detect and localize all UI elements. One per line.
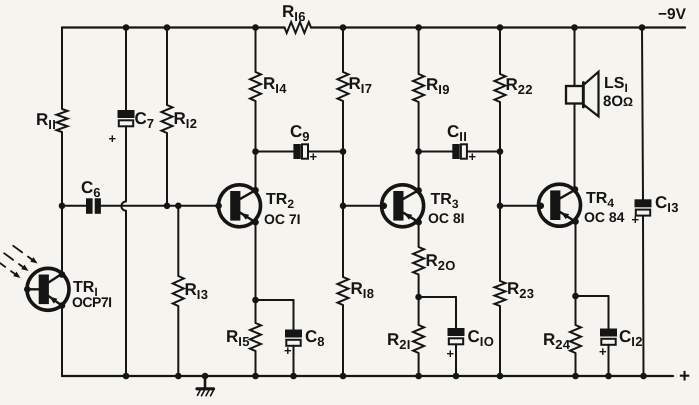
node top rail junction R14 column: [252, 24, 259, 31]
transistor TR4 OC84: [539, 184, 581, 226]
light arrow 2 into TR1: [4, 253, 13, 260]
svg-text:R2O: R2O: [426, 251, 456, 273]
node R15 top junction: [252, 297, 259, 304]
wire C7 column lower: [125, 211, 127, 376]
wire R20 to R21 junction: [418, 275, 420, 298]
wire R14 column upper: [255, 28, 257, 73]
svg-text:TR3: TR3: [431, 191, 459, 211]
node bottom rail junction R23: [497, 373, 504, 380]
resistor R12: [162, 105, 173, 133]
node TR3 base row junction: [340, 203, 347, 210]
light arrow 1 into TR1: [13, 246, 22, 253]
node bottom rail junction R13 column: [175, 373, 182, 380]
wire R13 column lower: [177, 306, 179, 376]
node R24 top junction: [572, 293, 579, 300]
svg-text:CII: CII: [447, 122, 467, 144]
transistor TR1 OCP71: [27, 268, 69, 310]
wire C7 column hop over base wire: [121, 202, 126, 211]
capacitor C12: [600, 329, 617, 337]
svg-text:R24: R24: [543, 330, 571, 352]
wire left column top: [61, 28, 63, 110]
wire TR4 emitter to R24 junction: [575, 222, 577, 296]
svg-text:C6: C6: [81, 178, 101, 200]
wire C12 column lower: [608, 345, 610, 376]
wire C13 column upper: [642, 28, 643, 200]
svg-text:RI7: RI7: [349, 74, 373, 96]
wire LS1 to TR4 collector: [574, 104, 576, 190]
wire R19 to C11 junction: [418, 102, 420, 152]
wire LS1 column upper: [574, 28, 576, 87]
svg-text:TR2: TR2: [266, 191, 294, 211]
wire R21 junction to C10: [419, 296, 456, 298]
transistor TR2 OC71: [219, 185, 261, 227]
svg-text:+: +: [679, 366, 690, 387]
resistor R18: [338, 277, 349, 305]
wire C11 junction to TR4 base row: [499, 152, 501, 206]
wire R15 junction to zigzag: [255, 300, 257, 323]
resistor R11: [57, 109, 68, 132]
wire R22 column upper: [499, 28, 501, 75]
node TR4 base edge dot: [538, 203, 545, 210]
svg-text:R22: R22: [506, 75, 533, 97]
node bottom rail junction R15: [252, 373, 259, 380]
node bottom rail junction R21: [415, 373, 422, 380]
wire C13 column lower: [642, 216, 645, 376]
node TR4 collector junction: [572, 186, 579, 193]
wire C11 right lead: [467, 151, 500, 153]
node top rail junction R22 column: [497, 24, 504, 31]
node C11 left junction: [415, 148, 422, 155]
wire R17 column upper: [342, 28, 344, 73]
node TR1 base dot: [24, 286, 31, 293]
wire C8 column upper: [293, 300, 295, 330]
capacitor C7: [118, 110, 135, 118]
svg-text:OCP7I: OCP7I: [72, 294, 112, 310]
resistor R21: [413, 325, 424, 353]
wire top supply rail left of R16: [62, 26, 285, 28]
svg-text:OC 7I: OC 7I: [264, 211, 301, 227]
svg-text:−9V: −9V: [658, 6, 687, 23]
wire C8 column lower: [293, 346, 295, 376]
node TR3 base edge dot: [381, 203, 388, 210]
node bottom rail junction C7 column: [123, 373, 130, 380]
node TR1 collector junction: [59, 271, 66, 278]
svg-text:OC 84: OC 84: [584, 209, 625, 225]
svg-text:RI4: RI4: [263, 74, 287, 96]
svg-text:C8: C8: [305, 327, 325, 349]
node R12 base wire junction: [164, 203, 171, 210]
svg-text:C7: C7: [135, 109, 155, 131]
wire C11 junction to TR3 collector: [418, 152, 420, 191]
svg-text:8OΩ: 8OΩ: [603, 93, 633, 110]
wire TR2 emitter to R15 junction: [255, 222, 257, 300]
wire C11 left lead: [419, 151, 453, 153]
node R13 top junction: [175, 203, 182, 210]
loudspeaker LS1: [566, 86, 583, 104]
transistor TR3 OC81: [382, 185, 424, 227]
resistor R17: [338, 72, 349, 101]
node top rail junction C13 column: [639, 24, 646, 31]
node R21 top junction: [415, 294, 422, 301]
node TR3 emitter junction: [415, 219, 422, 226]
svg-text:R23: R23: [507, 279, 534, 301]
wire left column bottom: [61, 306, 63, 377]
node TR2 collector junction: [252, 187, 259, 194]
wire top supply rail right of R16: [311, 26, 685, 28]
resistor R13: [173, 276, 184, 306]
svg-text:CIO: CIO: [468, 327, 495, 349]
node bottom rail junction C12: [605, 373, 612, 380]
wire R12 column lower: [166, 133, 168, 206]
svg-text:C9: C9: [290, 122, 310, 144]
wire C10 column upper: [455, 297, 457, 328]
wire C9 junction to TR2 collector: [255, 152, 257, 191]
svg-text:RI6: RI6: [282, 2, 306, 24]
wire C6 left segment: [62, 205, 86, 207]
capacitor C10: [448, 328, 465, 336]
wire C12 column upper: [608, 296, 610, 329]
node TR3 collector junction: [415, 187, 422, 194]
node top rail junction R19 column: [415, 24, 422, 31]
wire TR1 base stub: [27, 288, 38, 290]
node C9 left junction: [252, 148, 259, 155]
resistor R19: [413, 74, 424, 102]
node TR4 base row junction: [497, 203, 504, 210]
wire R23 column upper: [499, 206, 501, 281]
node top rail junction R12 column: [164, 24, 171, 31]
svg-text:+: +: [109, 131, 117, 146]
wire C6 to TR2 base: [101, 205, 219, 207]
wire R21 junction to zigzag: [418, 297, 420, 325]
wire TR3 emitter to R20: [418, 222, 420, 247]
capacitor C8: [285, 330, 302, 338]
wire R18 column lower: [342, 305, 344, 376]
wire R23 column lower: [499, 306, 501, 376]
capacitor C11: [452, 144, 459, 159]
wire C10 column lower: [455, 344, 457, 376]
ground: [204, 376, 207, 388]
node bottom rail junction R18: [340, 373, 347, 380]
wire TR4 base wire: [500, 205, 541, 207]
svg-text:RI9: RI9: [426, 75, 450, 97]
wire C9 left lead: [256, 151, 294, 153]
wire left column middle: [61, 132, 63, 275]
node TR2 emitter junction: [252, 219, 259, 226]
resistor R14: [250, 72, 261, 101]
node bottom rail junction C8: [290, 373, 297, 380]
svg-text:+: +: [284, 343, 292, 358]
svg-text:CI2: CI2: [619, 327, 643, 349]
wire bottom ground rail: [62, 375, 673, 377]
node TR2 base junction: [215, 203, 222, 210]
node top rail junction C7 column: [123, 24, 130, 31]
wire R12 column upper: [166, 28, 168, 106]
light arrow 3 into TR1: [0, 260, 5, 267]
wire R15 lower: [255, 351, 257, 376]
svg-text:OC 8I: OC 8I: [428, 210, 465, 226]
resistor R16: [285, 22, 311, 33]
node bottom rail junction R24: [572, 373, 579, 380]
svg-text:TR4: TR4: [586, 190, 614, 210]
svg-text:+: +: [632, 212, 640, 227]
svg-text:LSI: LSI: [604, 75, 628, 95]
node TR4 emitter junction: [572, 218, 579, 225]
wire C9 junction to TR3 base row: [342, 152, 344, 206]
wire R18 column upper: [342, 206, 344, 277]
capacitor C9: [293, 144, 300, 159]
capacitor C6: [86, 198, 93, 214]
resistor R15: [250, 323, 261, 351]
wire R15 junction to C8: [256, 299, 294, 301]
svg-text:RII: RII: [36, 110, 56, 132]
node bottom rail ground junction: [202, 373, 209, 380]
wire R22 to C11 junction: [499, 102, 501, 152]
resistor R20: [413, 247, 424, 275]
svg-text:CI3: CI3: [655, 193, 679, 215]
wire R24 junction to C12: [576, 295, 609, 297]
wire R19 column upper: [418, 28, 420, 75]
node C11 right junction: [497, 148, 504, 155]
wire C9 right lead: [308, 151, 343, 153]
node C9 right junction: [340, 148, 347, 155]
wire C7 column mid: [125, 126, 127, 201]
wire R24 junction to zigzag: [575, 296, 577, 325]
node bottom rail junction C10: [453, 373, 460, 380]
resistor R22: [495, 74, 506, 102]
svg-text:RI3: RI3: [185, 280, 209, 302]
svg-text:R2I: R2I: [387, 330, 411, 352]
wire TR3 base wire: [343, 205, 384, 207]
svg-text:+: +: [447, 346, 455, 361]
node bottom rail junction C13: [640, 373, 647, 380]
wire R21 lower: [418, 353, 420, 376]
wire R14 to C9 junction: [255, 101, 257, 152]
resistor R23: [495, 281, 506, 306]
wire R13 column upper: [177, 206, 179, 276]
svg-text:RI5: RI5: [226, 327, 250, 349]
svg-text:RI8: RI8: [351, 279, 375, 301]
capacitor C13: [635, 199, 652, 207]
node junction C6 left: [59, 203, 66, 210]
wire R17 to C9 junction: [342, 101, 344, 152]
wire R24 lower: [575, 353, 577, 376]
node top rail junction R17 column: [340, 24, 347, 31]
svg-text:RI2: RI2: [174, 109, 198, 131]
node top rail junction LS1 column: [571, 24, 578, 31]
svg-text:+: +: [599, 344, 607, 359]
node TR1 emitter junction: [59, 302, 66, 309]
wire C7 column upper: [125, 28, 127, 111]
resistor R24: [570, 325, 581, 353]
